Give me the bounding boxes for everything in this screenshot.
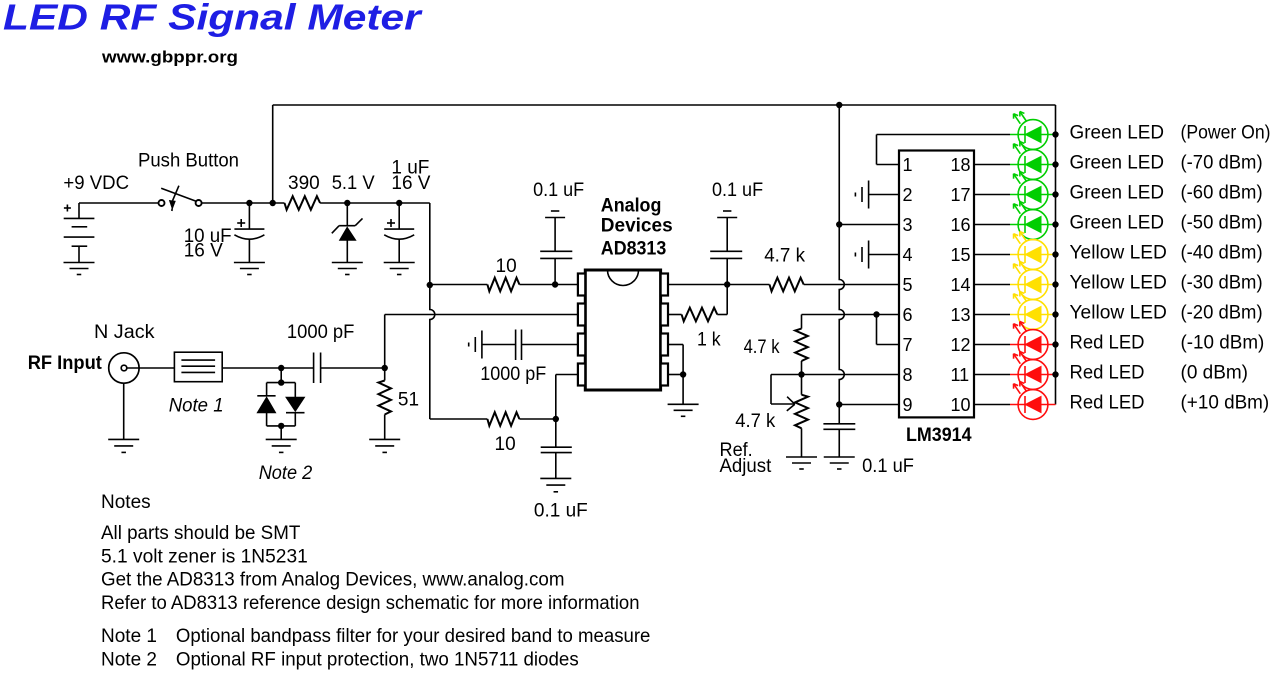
svg-text:1 k: 1 k	[697, 330, 721, 351]
svg-text:(0 dBm): (0 dBm)	[1181, 363, 1249, 384]
svg-text:Optional bandpass filter for y: Optional bandpass filter for your desire…	[176, 626, 651, 647]
svg-text:0.1 uF: 0.1 uF	[534, 500, 588, 521]
svg-text:Red LED: Red LED	[1070, 363, 1145, 384]
svg-text:0.1 uF: 0.1 uF	[533, 180, 584, 201]
svg-text:(+10 dBm): (+10 dBm)	[1181, 393, 1270, 414]
svg-text:4: 4	[903, 245, 913, 265]
svg-text:16 V: 16 V	[391, 173, 430, 194]
svg-text:Yellow LED: Yellow LED	[1070, 273, 1167, 294]
svg-text:Analog: Analog	[601, 196, 662, 217]
svg-text:18: 18	[951, 155, 971, 175]
svg-text:(Power On): (Power On)	[1181, 123, 1271, 144]
svg-text:Note 2: Note 2	[259, 463, 313, 484]
svg-text:16 V: 16 V	[184, 240, 223, 261]
svg-text:1: 1	[903, 155, 913, 175]
svg-text:+9 VDC: +9 VDC	[63, 173, 129, 194]
svg-text:Devices: Devices	[601, 216, 673, 237]
svg-text:Refer to AD8313 reference desi: Refer to AD8313 reference design schemat…	[101, 593, 640, 614]
svg-text:N Jack: N Jack	[94, 322, 155, 343]
svg-text:Red LED: Red LED	[1070, 333, 1145, 354]
svg-text:(-70 dBm): (-70 dBm)	[1181, 153, 1263, 174]
svg-text:14: 14	[951, 275, 971, 295]
svg-text:(-30 dBm): (-30 dBm)	[1181, 273, 1263, 294]
svg-text:All parts should be SMT: All parts should be SMT	[101, 523, 301, 544]
svg-text:5.1 volt zener is 1N5231: 5.1 volt zener is 1N5231	[101, 546, 308, 567]
svg-text:6: 6	[903, 305, 913, 325]
svg-text:2: 2	[903, 185, 913, 205]
svg-text:4.7 k: 4.7 k	[744, 337, 780, 358]
svg-text:10: 10	[951, 395, 971, 415]
svg-text:13: 13	[951, 305, 971, 325]
svg-text:15: 15	[951, 245, 971, 265]
svg-text:1000 pF: 1000 pF	[287, 322, 355, 343]
svg-text:10: 10	[495, 434, 516, 455]
svg-text:5: 5	[903, 275, 913, 295]
svg-text:Notes: Notes	[101, 492, 151, 513]
svg-text:0.1 uF: 0.1 uF	[862, 456, 914, 477]
svg-text:Note 1: Note 1	[101, 626, 157, 647]
svg-text:Green LED: Green LED	[1070, 153, 1165, 174]
svg-text:Green LED: Green LED	[1070, 183, 1165, 204]
svg-text:(-40 dBm): (-40 dBm)	[1181, 243, 1263, 264]
svg-text:11: 11	[951, 365, 970, 385]
svg-text:RF Input: RF Input	[28, 353, 103, 374]
svg-text:16: 16	[951, 215, 971, 235]
svg-text:12: 12	[951, 335, 971, 355]
svg-text:3: 3	[903, 215, 913, 235]
svg-text:Note 1: Note 1	[169, 396, 224, 417]
svg-text:9: 9	[903, 395, 913, 415]
svg-text:17: 17	[951, 185, 971, 205]
svg-text:LM3914: LM3914	[906, 425, 972, 446]
svg-text:Optional RF input protection,: Optional RF input protection, two 1N5711…	[176, 649, 579, 670]
svg-text:8: 8	[903, 365, 913, 385]
svg-text:(-10 dBm): (-10 dBm)	[1181, 333, 1265, 354]
svg-text:Green LED: Green LED	[1070, 123, 1165, 144]
svg-text:www.gbppr.org: www.gbppr.org	[101, 48, 238, 67]
svg-text:(-60 dBm): (-60 dBm)	[1181, 183, 1263, 204]
svg-text:(-50 dBm): (-50 dBm)	[1181, 213, 1263, 234]
svg-text:LED RF Signal Meter: LED RF Signal Meter	[3, 0, 423, 38]
svg-text:Push Button: Push Button	[138, 151, 239, 172]
svg-text:4.7 k: 4.7 k	[764, 246, 805, 267]
svg-text:10: 10	[496, 256, 517, 277]
svg-text:Adjust: Adjust	[720, 456, 773, 477]
svg-text:Yellow LED: Yellow LED	[1070, 303, 1167, 324]
svg-text:Get the AD8313 from Analog Dev: Get the AD8313 from Analog Devices, www.…	[101, 570, 565, 591]
svg-text:4.7 k: 4.7 k	[735, 411, 775, 432]
svg-text:Green LED: Green LED	[1070, 213, 1165, 234]
svg-text:1000 pF: 1000 pF	[480, 364, 546, 385]
svg-text:(-20 dBm): (-20 dBm)	[1181, 303, 1263, 324]
svg-text:Yellow LED: Yellow LED	[1070, 243, 1167, 264]
svg-text:0.1 uF: 0.1 uF	[712, 180, 763, 201]
svg-text:390: 390	[288, 173, 320, 194]
svg-text:51: 51	[398, 389, 419, 410]
svg-text:Note 2: Note 2	[101, 649, 157, 670]
svg-text:Red LED: Red LED	[1070, 393, 1145, 414]
svg-text:5.1 V: 5.1 V	[332, 173, 375, 194]
svg-text:AD8313: AD8313	[601, 239, 667, 260]
svg-text:7: 7	[903, 335, 913, 355]
